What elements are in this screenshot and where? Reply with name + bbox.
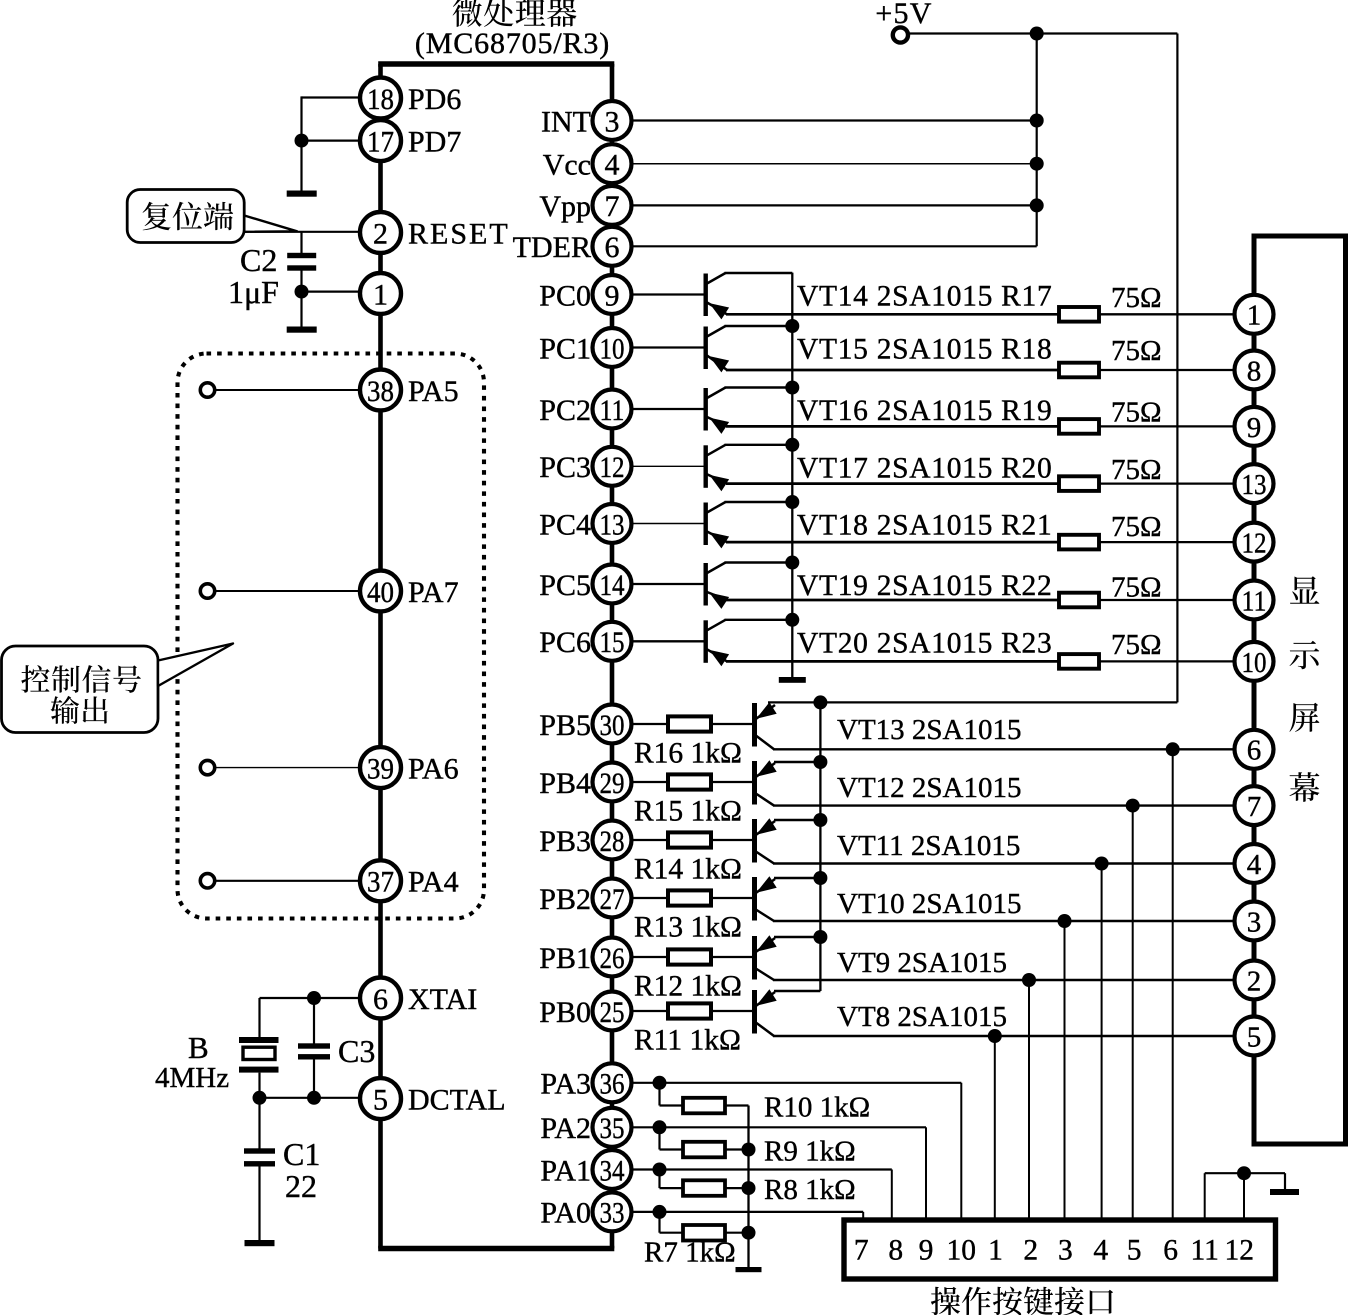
wire PA0 riser to keypad xyxy=(862,1212,864,1220)
transistor VT9 base bar xyxy=(752,936,757,980)
svg-text:PA0: PA0 xyxy=(540,1197,591,1230)
IC pin 30 PB5 xyxy=(593,705,632,744)
transistor VT20 collector xyxy=(707,620,726,631)
svg-text:1: 1 xyxy=(373,278,388,311)
ground G6 (keypad) xyxy=(1270,1189,1299,1195)
resistor R7 1k xyxy=(683,1225,725,1241)
transistor VT8 base bar xyxy=(752,990,757,1034)
open terminal PA6 out xyxy=(200,760,214,774)
display pin 10 xyxy=(1235,642,1274,681)
IC pin 4 Vcc xyxy=(593,144,632,183)
emitter arrow VT19 xyxy=(709,593,729,609)
svg-text:PC6: PC6 xyxy=(539,626,591,659)
transistor VT10 base bar xyxy=(752,877,757,921)
wire R18 to display xyxy=(1099,369,1236,371)
svg-text:VT12 2SA1015: VT12 2SA1015 xyxy=(837,772,1021,804)
wire pin1 xyxy=(302,291,363,293)
wire pin17 PD7 xyxy=(302,140,362,142)
wire R7 to bus xyxy=(725,1232,749,1234)
svg-text:4: 4 xyxy=(605,149,620,182)
wire base VT20 xyxy=(632,640,704,642)
junction dot VT16 collector bus xyxy=(785,381,799,395)
svg-text:(MC68705/R3): (MC68705/R3) xyxy=(415,27,610,60)
transistor VT8 collector xyxy=(756,1023,774,1037)
transistor VT8 emitter xyxy=(756,992,775,1006)
svg-text:10: 10 xyxy=(600,332,625,365)
svg-text:R11 1kΩ: R11 1kΩ xyxy=(634,1025,741,1057)
transistor VT10 collector xyxy=(756,910,774,922)
svg-text:29: 29 xyxy=(600,767,625,800)
resistor R14 1k xyxy=(668,832,711,847)
IC pin 7 Vpp xyxy=(593,186,632,225)
wire Vcc pin4 xyxy=(632,163,1037,165)
transistor VT19 collector xyxy=(707,563,726,574)
wire R21 to display xyxy=(1099,541,1236,543)
svg-text:1: 1 xyxy=(1247,300,1262,332)
IC pin 15 PC6 xyxy=(593,622,632,661)
IC pin 10 PC1 xyxy=(593,328,632,367)
resistor R17 75ohm xyxy=(1059,307,1099,322)
wire drop to keypad xyxy=(1028,980,1030,1220)
svg-text:30: 30 xyxy=(600,709,625,742)
svg-text:VT20 2SA1015 R23: VT20 2SA1015 R23 xyxy=(797,627,1052,659)
wire resistor to VT11 xyxy=(711,839,753,841)
svg-text:2: 2 xyxy=(1023,1235,1038,1267)
svg-text:12: 12 xyxy=(1242,528,1267,560)
transistor VT16 base bar xyxy=(704,388,708,431)
resistor R15 1k xyxy=(668,774,711,789)
wire PA1 to R8 xyxy=(658,1170,660,1189)
junction dot PA1 xyxy=(653,1163,667,1177)
junction dot crystal bottom xyxy=(253,1091,267,1105)
wire PA2 to R9 xyxy=(658,1127,660,1149)
wire base VT14 xyxy=(632,293,704,295)
transistor VT15 base bar xyxy=(704,327,708,370)
svg-text:4: 4 xyxy=(1247,849,1262,881)
svg-text:PB2: PB2 xyxy=(539,883,591,916)
junction dot drop row VT10 xyxy=(1058,914,1072,928)
svg-text:38: 38 xyxy=(367,375,394,408)
svg-text:PD6: PD6 xyxy=(408,83,461,116)
svg-text:C1: C1 xyxy=(283,1136,320,1172)
junction dot PA2 xyxy=(653,1120,667,1134)
svg-text:7: 7 xyxy=(605,190,620,223)
display pin 4 xyxy=(1235,844,1274,883)
callout 复位端 tail xyxy=(244,216,297,232)
svg-text:11: 11 xyxy=(1242,585,1267,617)
label 操作按键接口 xyxy=(931,1287,960,1315)
IC pin 34 PA1 xyxy=(593,1150,632,1189)
IC pin 3 INT xyxy=(593,101,632,140)
transistor VT14 base bar xyxy=(704,274,708,317)
wire R20 to display xyxy=(1099,482,1236,484)
svg-text:VT13 2SA1015: VT13 2SA1015 xyxy=(837,714,1021,746)
wire PB1 to resistor xyxy=(632,956,668,958)
junction dot pin1 net xyxy=(295,285,309,299)
junction dot drop row VT9 xyxy=(1022,973,1036,987)
transistor VT12 base bar xyxy=(752,761,757,805)
junction dot drop row VT8 xyxy=(988,1029,1002,1043)
svg-text:PC0: PC0 xyxy=(539,279,591,312)
svg-text:C2: C2 xyxy=(240,242,277,278)
svg-text:3: 3 xyxy=(1058,1235,1073,1267)
svg-text:XTAI: XTAI xyxy=(408,983,477,1016)
svg-text:9: 9 xyxy=(919,1235,934,1267)
svg-text:PC5: PC5 xyxy=(539,569,591,602)
transistor VT11 emitter xyxy=(756,821,775,835)
svg-text:5: 5 xyxy=(1127,1235,1142,1267)
wire drop to keypad xyxy=(1132,806,1134,1220)
svg-text:25: 25 xyxy=(600,996,625,1029)
IC pin 39 PA6 xyxy=(360,747,401,788)
svg-text:11: 11 xyxy=(600,394,625,427)
transistor VT19 emitter xyxy=(707,592,727,600)
microcontroller U1 body outline xyxy=(378,61,614,67)
transistor VT14 collector xyxy=(707,273,726,284)
IC pin 27 PB2 xyxy=(593,879,632,918)
svg-text:39: 39 xyxy=(367,752,394,785)
junction dot Vcc +5V xyxy=(1030,157,1044,171)
transistor VT17 collector xyxy=(707,445,726,456)
wire keypad pin11 to ground link xyxy=(1204,1173,1206,1220)
ground G1 xyxy=(287,191,317,197)
wire pin18 PD6 xyxy=(302,96,362,98)
keypad connector box xyxy=(844,1220,1276,1279)
wire crystal to node xyxy=(258,1073,260,1098)
svg-text:40: 40 xyxy=(367,576,394,609)
svg-text:PA1: PA1 xyxy=(540,1154,591,1187)
IC pin 26 PB1 xyxy=(593,938,632,977)
wire C3 bottom xyxy=(313,1060,315,1098)
capacitor C2 xyxy=(287,253,316,258)
transistor VT17 base bar xyxy=(704,445,708,488)
svg-text:5: 5 xyxy=(1247,1021,1262,1053)
IC pin 36 PA3 xyxy=(593,1063,632,1102)
display pin 8 xyxy=(1235,351,1274,390)
resistor R22 75ohm xyxy=(1059,593,1099,608)
wire drop to keypad xyxy=(1172,749,1174,1220)
IC pin 29 PB4 xyxy=(593,763,632,802)
transistor VT9 collector xyxy=(756,969,774,981)
wire R17 to display xyxy=(1099,313,1236,315)
emitter arrow VT15 xyxy=(709,356,729,372)
svg-text:VT17 2SA1015 R20: VT17 2SA1015 R20 xyxy=(797,452,1052,484)
display pin 9 xyxy=(1235,407,1274,446)
ground G5 (R7 bus) xyxy=(736,1267,762,1272)
wire R22 to display xyxy=(1099,599,1236,601)
junction dot VT10 emitter bus xyxy=(813,871,827,885)
junction dot pin12 riser xyxy=(1237,1166,1251,1180)
IC pin 1 xyxy=(360,273,401,314)
open terminal PA4 out xyxy=(200,874,214,888)
IC pin 14 PC5 xyxy=(593,565,632,604)
svg-text:17: 17 xyxy=(367,125,394,158)
wire PA1 riser to keypad xyxy=(891,1170,893,1221)
svg-text:4MHz: 4MHz xyxy=(155,1062,229,1094)
IC pin 2 RESET xyxy=(360,212,401,253)
wire base VT19 xyxy=(632,583,704,585)
wire PB5 to resistor xyxy=(632,723,668,725)
svg-text:75Ω: 75Ω xyxy=(1111,629,1162,661)
IC pin 28 PB3 xyxy=(593,821,632,860)
resistor R12 1k xyxy=(668,949,711,964)
transistor VT13 base bar xyxy=(752,703,757,747)
svg-text:9: 9 xyxy=(605,279,620,312)
wire base VT15 xyxy=(632,346,704,348)
svg-text:9: 9 xyxy=(1247,412,1262,444)
svg-text:R12 1kΩ: R12 1kΩ xyxy=(634,971,742,1003)
resistor R9 1k xyxy=(683,1142,725,1158)
svg-text:6: 6 xyxy=(605,231,620,264)
svg-text:28: 28 xyxy=(600,825,625,858)
svg-text:VT15 2SA1015 R18: VT15 2SA1015 R18 xyxy=(797,334,1052,366)
wire +5V right column xyxy=(1176,34,1178,703)
wire PA6 terminal xyxy=(215,767,361,769)
svg-text:Vcc: Vcc xyxy=(543,149,591,182)
emitter bus VT8-VT13 xyxy=(819,702,821,991)
junction dot PD7 net xyxy=(295,134,309,148)
svg-text:PA5: PA5 xyxy=(408,375,459,408)
wire R19 to display xyxy=(1099,425,1236,427)
open terminal PA5 out xyxy=(200,383,214,397)
svg-text:3: 3 xyxy=(605,105,620,138)
svg-text:5: 5 xyxy=(373,1083,388,1116)
svg-text:6: 6 xyxy=(1163,1235,1178,1267)
wire R9 to bus xyxy=(725,1148,749,1150)
junction dot +5V branch xyxy=(1030,27,1044,41)
wire node to C1 xyxy=(258,1098,260,1149)
wire R10 to bus xyxy=(725,1104,749,1106)
svg-text:75Ω: 75Ω xyxy=(1111,397,1162,429)
junction dot VT9 emitter bus xyxy=(813,930,827,944)
transistor VT19 base bar xyxy=(704,563,708,606)
transistor VT12 collector xyxy=(756,794,774,806)
junction dot VT12 emitter bus xyxy=(813,755,827,769)
transistor VT13 emitter xyxy=(756,705,775,719)
resistor bus R7-R10 xyxy=(747,1106,749,1269)
ground G2 xyxy=(287,327,317,333)
junction dot C3 bottom xyxy=(307,1091,321,1105)
callout text 输出 xyxy=(51,696,80,724)
svg-text:B: B xyxy=(188,1030,209,1065)
transistor VT16 collector xyxy=(707,388,726,399)
svg-text:VT14 2SA1015 R17: VT14 2SA1015 R17 xyxy=(797,281,1052,313)
capacitor C3 xyxy=(298,1043,330,1048)
wire resistor to VT12 xyxy=(711,781,753,783)
svg-text:PA2: PA2 xyxy=(540,1112,591,1145)
wire PA2 row xyxy=(632,1126,926,1128)
IC pin 38 PA5 xyxy=(360,370,401,411)
wire resistor to VT13 xyxy=(711,723,753,725)
svg-text:R14 1kΩ: R14 1kΩ xyxy=(634,854,742,886)
transistor VT20 base bar xyxy=(704,620,708,663)
display pin 2 xyxy=(1235,961,1274,1000)
wire PA0 to R7 xyxy=(658,1212,660,1233)
svg-text:R13 1kΩ: R13 1kΩ xyxy=(634,912,742,944)
transistor VT18 emitter xyxy=(707,532,727,543)
junction dot VT18 collector bus xyxy=(785,495,799,509)
svg-text:1: 1 xyxy=(988,1235,1003,1267)
dashed control-signal box xyxy=(178,354,485,919)
svg-text:2: 2 xyxy=(373,217,388,250)
svg-text:35: 35 xyxy=(600,1112,625,1145)
wire PB4 to resistor xyxy=(632,781,668,783)
svg-text:3: 3 xyxy=(1247,906,1262,938)
junction dot R9 bus xyxy=(742,1143,756,1157)
svg-text:PD7: PD7 xyxy=(408,125,461,158)
svg-text:PB4: PB4 xyxy=(539,767,591,800)
resistor R16 1k xyxy=(668,716,711,731)
emitter arrow VT10 xyxy=(756,876,777,893)
IC pin 35 PA2 xyxy=(593,1108,632,1147)
svg-text:Vpp: Vpp xyxy=(539,190,591,223)
svg-text:VT11 2SA1015: VT11 2SA1015 xyxy=(837,830,1020,862)
svg-text:7: 7 xyxy=(854,1235,869,1267)
ground G4 (collector bus) xyxy=(779,677,806,683)
wire PA3 to R10 xyxy=(658,1083,660,1106)
svg-text:PB0: PB0 xyxy=(539,996,591,1029)
wire RESET pin2 xyxy=(250,231,361,233)
wire DCTAL pin5 xyxy=(260,1097,363,1099)
IC pin 6 TDER xyxy=(593,227,632,266)
svg-text:75Ω: 75Ω xyxy=(1111,511,1162,543)
junction dot VT19 collector bus xyxy=(785,556,799,570)
emitter arrow VT20 xyxy=(709,650,729,666)
emitter arrow VT13 xyxy=(756,702,777,719)
transistor VT12 emitter xyxy=(756,763,775,777)
emitter arrow VT11 xyxy=(756,818,777,835)
transistor VT9 emitter xyxy=(756,938,775,952)
svg-text:11: 11 xyxy=(1190,1235,1218,1267)
junction dot emitter bus top xyxy=(813,695,827,709)
wire C1 to ground xyxy=(258,1166,260,1240)
wire PD7 net to ground xyxy=(300,141,302,191)
resistor R18 75ohm xyxy=(1059,363,1099,378)
display connector box xyxy=(1254,236,1346,1144)
resistor R21 75ohm xyxy=(1059,535,1099,550)
junction dot VT15 collector bus xyxy=(785,319,799,333)
wire resistor to VT9 xyxy=(711,956,753,958)
svg-text:6: 6 xyxy=(1247,735,1262,767)
display pin 1 xyxy=(1235,295,1274,334)
transistor VT15 collector xyxy=(707,326,726,337)
display pin 5 xyxy=(1235,1017,1274,1056)
svg-text:14: 14 xyxy=(600,569,625,602)
wire C3 top xyxy=(313,998,315,1044)
junction dot VT20 collector bus xyxy=(785,613,799,627)
junction dot drop row VT11 xyxy=(1095,857,1109,871)
svg-text:RESET: RESET xyxy=(408,217,510,250)
IC pin 33 PA0 xyxy=(593,1192,632,1231)
IC pin 37 PA4 xyxy=(360,860,401,901)
junction dot INT +5V xyxy=(1030,114,1044,128)
display pin 7 xyxy=(1235,786,1274,825)
IC pin 11 PC2 xyxy=(593,390,632,429)
svg-text:22: 22 xyxy=(285,1168,317,1204)
junction dot R8 bus xyxy=(742,1181,756,1195)
svg-text:VT10 2SA1015: VT10 2SA1015 xyxy=(837,888,1021,920)
display pin 12 xyxy=(1235,523,1274,562)
transistor VT18 collector xyxy=(707,502,726,513)
wire PA0 row xyxy=(632,1211,863,1213)
wire PB0 to resistor xyxy=(632,1010,668,1012)
svg-text:C3: C3 xyxy=(338,1033,375,1069)
emitter arrow VT18 xyxy=(709,532,729,548)
transistor VT13 collector xyxy=(756,736,774,750)
+5V terminal xyxy=(893,27,908,42)
IC pin 6 XTAI xyxy=(360,978,401,1019)
wire PB2 to resistor xyxy=(632,897,668,899)
svg-text:PC1: PC1 xyxy=(539,332,591,365)
svg-text:75Ω: 75Ω xyxy=(1111,282,1162,314)
wire resistor to VT8 xyxy=(711,1010,753,1012)
svg-text:PA3: PA3 xyxy=(540,1068,591,1101)
emitter arrow VT14 xyxy=(709,303,729,319)
wire drop to keypad xyxy=(994,1036,996,1220)
junction dot R7 bus xyxy=(742,1226,756,1240)
svg-text:PC2: PC2 xyxy=(539,394,591,427)
crystal B box xyxy=(243,1047,275,1059)
transistor VT16 emitter xyxy=(707,417,727,426)
svg-text:10: 10 xyxy=(947,1235,977,1267)
junction dot C3 top xyxy=(307,991,321,1005)
emitter arrow VT9 xyxy=(756,935,777,952)
wire +5V branch down xyxy=(1036,34,1038,247)
svg-text:PB1: PB1 xyxy=(539,942,591,975)
svg-text:75Ω: 75Ω xyxy=(1111,572,1162,604)
wire TDER pin6 xyxy=(632,245,1037,247)
wire to crystal B xyxy=(258,998,260,1040)
svg-text:PC4: PC4 xyxy=(539,508,591,541)
svg-text:12: 12 xyxy=(600,451,625,484)
wire drop to keypad xyxy=(1101,864,1103,1221)
svg-text:13: 13 xyxy=(1242,469,1267,501)
callout 控制信号输出 box xyxy=(2,646,159,733)
emitter arrow VT17 xyxy=(709,475,729,491)
transistor VT18 base bar xyxy=(704,503,708,546)
svg-text:PA4: PA4 xyxy=(408,866,459,899)
svg-text:VT19 2SA1015 R22: VT19 2SA1015 R22 xyxy=(797,570,1052,602)
emitter arrow VT8 xyxy=(756,989,777,1006)
svg-text:VT18 2SA1015 R21: VT18 2SA1015 R21 xyxy=(797,510,1052,542)
ground G3 xyxy=(245,1240,275,1246)
junction dot drop row VT12 xyxy=(1126,799,1140,813)
wire PA3 riser to keypad xyxy=(960,1083,962,1220)
wire Vpp pin7 xyxy=(632,204,1037,206)
IC pin 9 PC0 xyxy=(593,275,632,314)
junction dot Vpp +5V xyxy=(1030,198,1044,212)
svg-text:PA6: PA6 xyxy=(408,752,459,785)
callout 复位端 box xyxy=(127,190,244,243)
capacitor C1 xyxy=(244,1148,275,1153)
svg-text:75Ω: 75Ω xyxy=(1111,335,1162,367)
resistor R20 75ohm xyxy=(1059,476,1099,491)
svg-text:75Ω: 75Ω xyxy=(1111,454,1162,486)
svg-text:4: 4 xyxy=(1093,1235,1108,1267)
wire PA2 riser to keypad xyxy=(925,1127,927,1220)
svg-text:12: 12 xyxy=(1225,1235,1255,1267)
wire PA3 row xyxy=(632,1082,961,1084)
wire base VT16 xyxy=(632,408,704,410)
svg-text:PB3: PB3 xyxy=(539,825,591,858)
wire RESET to C2 xyxy=(300,232,302,253)
wire INT pin3 xyxy=(632,119,1037,121)
resistor R11 1k xyxy=(668,1003,711,1018)
svg-text:34: 34 xyxy=(600,1154,625,1187)
wire base VT18 xyxy=(632,523,704,525)
svg-text:33: 33 xyxy=(600,1197,625,1230)
IC pin 12 PC3 xyxy=(593,447,632,486)
